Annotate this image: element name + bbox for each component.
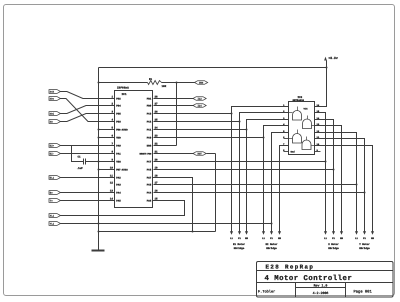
capacitor C1 bbox=[83, 159, 85, 165]
svg-text:E28 RepRap: E28 RepRap bbox=[266, 264, 315, 271]
tag EZ+ bbox=[49, 144, 61, 148]
connector X Motor HBridge bbox=[324, 231, 327, 235]
wire PC3 row bbox=[154, 113, 232, 115]
wire PC7 row bbox=[154, 161, 326, 163]
svg-text:DBG: DBG bbox=[147, 145, 152, 148]
svg-text:SN754410: SN754410 bbox=[293, 99, 305, 102]
svg-text:PA4: PA4 bbox=[116, 192, 121, 195]
svg-text:RESET-PB0: RESET-PB0 bbox=[139, 153, 152, 156]
svg-text:C1: C1 bbox=[78, 155, 82, 158]
IC2 pin stubs bbox=[284, 106, 289, 108]
tag RST bbox=[154, 153, 194, 155]
svg-text:DBG: DBG bbox=[199, 82, 204, 85]
wire RST row continues to pulldown drop bbox=[207, 153, 216, 155]
svg-text:PC4: PC4 bbox=[147, 192, 152, 195]
tag EL1 bbox=[49, 176, 61, 180]
svg-text:PA6: PA6 bbox=[147, 200, 152, 203]
svg-text:SCK: SCK bbox=[50, 91, 55, 94]
svg-text:4-2-2006: 4-2-2006 bbox=[313, 291, 329, 295]
tag SDi bbox=[49, 112, 61, 116]
svg-text:Gnd: Gnd bbox=[291, 151, 296, 154]
svg-text:VCC: VCC bbox=[304, 108, 309, 111]
svg-text:PC0: PC0 bbox=[147, 137, 152, 140]
wire net X-P bbox=[315, 120, 334, 232]
wire rail to R1 bbox=[99, 82, 148, 84]
svg-text:PB5: PB5 bbox=[116, 113, 121, 116]
IC2 internal gate wires bbox=[289, 112, 293, 114]
wire PC0 row bbox=[154, 137, 264, 139]
svg-text:PB2: PB2 bbox=[116, 98, 121, 101]
svg-text:Z8F08xA: Z8F08xA bbox=[117, 87, 129, 90]
wire net Y-P bbox=[315, 139, 365, 232]
svg-text:+3.3v: +3.3v bbox=[328, 56, 338, 60]
wire EL1 to pin11 bbox=[61, 177, 115, 179]
svg-text:PA2: PA2 bbox=[116, 177, 121, 180]
svg-text:Rev 1.0: Rev 1.0 bbox=[314, 284, 328, 288]
op IC1 Z8F08xA microcontroller bbox=[115, 91, 153, 208]
svg-text:HBridge: HBridge bbox=[266, 247, 277, 250]
wire SS to pin3 bbox=[61, 114, 115, 122]
svg-text:PB1: PB1 bbox=[147, 98, 152, 101]
connector E2 Motor HBridge bbox=[262, 231, 265, 235]
svg-text:EL1: EL1 bbox=[50, 177, 55, 180]
wire VSS pin9 bbox=[99, 161, 115, 163]
svg-text:22: 22 bbox=[155, 143, 159, 146]
svg-text:HBridge: HBridge bbox=[328, 247, 339, 250]
svg-text:VDD: VDD bbox=[116, 137, 121, 140]
wire net Y-L bbox=[315, 133, 357, 232]
svg-text:PB6-AVDD: PB6-AVDD bbox=[116, 129, 128, 132]
wire +3.3v to IC2 VCC bbox=[315, 68, 327, 107]
wire PC5 row bbox=[154, 184, 357, 186]
driver gate A bbox=[293, 111, 302, 121]
tag YL1 bbox=[49, 222, 61, 226]
svg-text:RST: RST bbox=[197, 153, 202, 156]
wire Bv to pin13 bbox=[61, 192, 115, 194]
svg-text:I13: I13 bbox=[197, 98, 202, 101]
svg-text:Page 001: Page 001 bbox=[354, 289, 373, 294]
svg-text:PC1: PC1 bbox=[147, 129, 152, 132]
wire AVDD pin5 bbox=[99, 129, 115, 131]
svg-text:PC3: PC3 bbox=[147, 113, 152, 116]
svg-text:I14: I14 bbox=[197, 105, 202, 108]
title block bbox=[257, 262, 394, 298]
svg-text:4 Motor Controller: 4 Motor Controller bbox=[265, 274, 353, 283]
tag I13 bbox=[154, 98, 194, 100]
wire Tv to pin14 bbox=[61, 200, 115, 202]
tag XL1 bbox=[49, 214, 61, 218]
svg-text:PA7: PA7 bbox=[147, 177, 152, 180]
driver gate C bbox=[293, 134, 302, 144]
wire left vertical rail bbox=[98, 68, 100, 251]
wire PA7 row bbox=[153, 178, 193, 232]
svg-text:VSS: VSS bbox=[116, 161, 121, 164]
tag Bv bbox=[49, 191, 61, 195]
tag DBG bbox=[195, 81, 208, 85]
tag SCK bbox=[49, 90, 61, 94]
svg-text:SDi: SDi bbox=[50, 113, 55, 116]
tag SDo bbox=[49, 97, 61, 101]
wire net E1-P bbox=[240, 113, 289, 232]
svg-text:.1uF: .1uF bbox=[77, 167, 84, 170]
op IC2 SN754410 driver bbox=[289, 102, 315, 155]
resistor R1 bbox=[148, 81, 162, 85]
svg-text:E1 Motor: E1 Motor bbox=[233, 243, 246, 246]
wire +3.3v top rail bbox=[99, 67, 327, 69]
wire SCK to pin1 bbox=[61, 92, 115, 99]
wire EZ- to pin8 bbox=[61, 153, 115, 155]
tag Tv bbox=[49, 199, 61, 203]
wire net X-L bbox=[315, 113, 326, 232]
svg-text:Y Motor: Y Motor bbox=[359, 243, 370, 246]
wire VDD pin6 bbox=[99, 137, 115, 139]
wire net E1-EN bbox=[247, 120, 289, 232]
wire PC4 row bbox=[154, 192, 365, 194]
svg-text:PA5: PA5 bbox=[116, 200, 121, 203]
wire net E2-EN bbox=[280, 146, 289, 232]
connector Y Motor HBridge bbox=[355, 231, 358, 235]
svg-text:PB3: PB3 bbox=[116, 121, 121, 124]
svg-text:12: 12 bbox=[110, 182, 114, 185]
svg-text:PA0: PA0 bbox=[116, 145, 121, 148]
svg-text:PC7: PC7 bbox=[147, 161, 152, 164]
tag I14 bbox=[154, 105, 194, 107]
svg-text:PB4: PB4 bbox=[116, 105, 121, 108]
svg-text:IC1: IC1 bbox=[122, 93, 127, 96]
connector E1 Motor HBridge bbox=[230, 231, 233, 235]
svg-text:10K: 10K bbox=[162, 85, 167, 88]
svg-text:PB7-AVSS: PB7-AVSS bbox=[116, 169, 128, 172]
svg-text:EZ-: EZ- bbox=[50, 153, 55, 156]
svg-text:HBridge: HBridge bbox=[359, 247, 370, 250]
svg-text:PB0: PB0 bbox=[147, 105, 152, 108]
wire PC2 row bbox=[154, 121, 240, 123]
svg-text:F.Tobler: F.Tobler bbox=[258, 289, 275, 294]
svg-text:PC5: PC5 bbox=[147, 184, 152, 187]
svg-text:PC6: PC6 bbox=[147, 169, 152, 172]
wire YL1 run bbox=[61, 223, 272, 225]
wire net X-EN bbox=[315, 126, 342, 232]
power +3.3v symbol bbox=[326, 61, 328, 68]
wire net E2-P bbox=[272, 133, 289, 232]
wire SDo to pin4 bbox=[61, 99, 115, 122]
tag SS bbox=[49, 120, 61, 124]
svg-text:PC2: PC2 bbox=[147, 121, 152, 124]
wire AVSS pin10 bbox=[99, 169, 115, 171]
wire XL1 to pin15 PA6 bbox=[61, 201, 185, 216]
wire C1 branch bbox=[72, 146, 84, 162]
wire net Y-EN bbox=[315, 146, 373, 232]
tag EZ- bbox=[49, 152, 61, 156]
wire DBG node to IC1 pin 22 bbox=[176, 83, 178, 146]
svg-text:YL1: YL1 bbox=[50, 223, 55, 226]
wire R1 to DBG node bbox=[162, 82, 195, 84]
driver gate B bbox=[303, 119, 312, 129]
ground bbox=[92, 250, 105, 252]
wire EZ+ to pin7 bbox=[61, 145, 115, 147]
svg-text:XL1: XL1 bbox=[50, 215, 55, 218]
svg-text:E2 Motor: E2 Motor bbox=[265, 243, 278, 246]
svg-text:X Motor: X Motor bbox=[328, 243, 339, 246]
svg-text:HBridge: HBridge bbox=[234, 247, 245, 250]
svg-text:EZ+: EZ+ bbox=[50, 145, 55, 148]
wire PC1 row bbox=[154, 129, 247, 131]
wire SDi to pin2 bbox=[61, 106, 115, 114]
svg-text:PA1: PA1 bbox=[116, 153, 121, 156]
wire PC6 row bbox=[154, 169, 334, 171]
wire net E2-L bbox=[264, 126, 289, 232]
wire ground row bbox=[99, 231, 216, 233]
wire net E1-L bbox=[232, 107, 289, 232]
svg-text:SDo: SDo bbox=[50, 98, 55, 101]
svg-text:R1: R1 bbox=[149, 78, 153, 81]
svg-text:PA3: PA3 bbox=[116, 184, 121, 187]
driver gate D bbox=[302, 140, 311, 150]
